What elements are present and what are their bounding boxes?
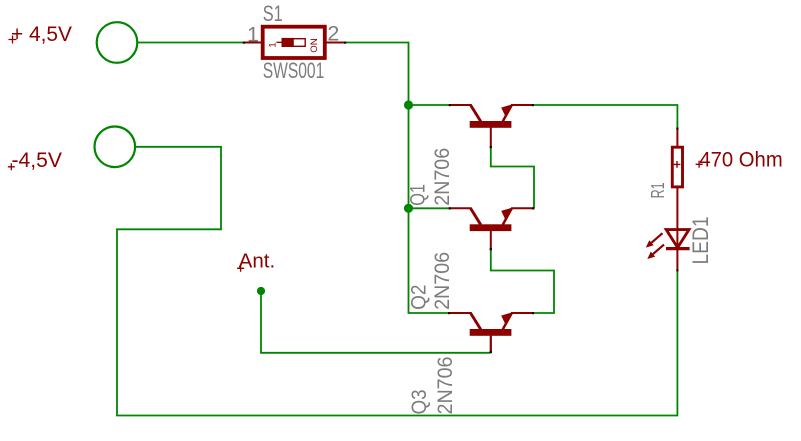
node Ant terminal dot <box>257 287 265 295</box>
LED1 light arrow 2 <box>647 245 664 259</box>
svg-text:SWS001: SWS001 <box>263 58 325 83</box>
resistor R1 body <box>672 147 682 187</box>
origin cross of +4,5V <box>9 36 17 44</box>
battery connector B2 (-4,5V) circle <box>95 127 136 168</box>
svg-text:Q1: Q1 <box>407 184 430 206</box>
wire Q1 base to Q2 emitter (elbow) <box>491 147 534 209</box>
resistor R1 top pin lead <box>676 128 678 147</box>
wire Q1 emitter to R1 (top right net) <box>533 105 678 129</box>
LED1 light arrow 1 <box>646 233 663 247</box>
svg-text:LED1: LED1 <box>688 217 713 265</box>
svg-text:R1: R1 <box>648 182 668 198</box>
svg-text:2N706: 2N706 <box>434 357 457 415</box>
svg-text:+ 4,5V: + 4,5V <box>11 22 73 46</box>
svg-text:2N706: 2N706 <box>431 252 454 310</box>
transistor Q1 (2N706) <box>449 104 533 147</box>
switch S1 slider outline <box>282 39 305 47</box>
wire rail to Q2 collector <box>409 207 450 209</box>
wire S1 pin2 to left collector rail <box>345 43 449 314</box>
wire rail to Q1 collector <box>409 104 450 106</box>
LED1 bottom pin lead <box>676 249 678 271</box>
switch S1 slider knob (filled) <box>282 38 294 47</box>
svg-text:ON: ON <box>309 38 320 53</box>
svg-text:1: 1 <box>247 23 259 47</box>
origin cross of Ant. <box>237 265 244 272</box>
svg-text:2: 2 <box>327 22 339 46</box>
switch S1 pin 1 lead <box>244 42 262 44</box>
pin connection dots (black) <box>243 42 679 354</box>
svg-text:Q3: Q3 <box>408 389 431 414</box>
switch S1 inner dash <box>277 41 282 43</box>
svg-text:Q2: Q2 <box>407 285 430 310</box>
LED1 diode triangle <box>666 230 689 248</box>
svg-text:1: 1 <box>268 42 279 47</box>
wire battery B2 loop to bottom rail and LED cathode <box>117 147 677 416</box>
transistor Q2 (2N706) <box>449 207 533 250</box>
svg-text:S1: S1 <box>263 1 283 26</box>
wire Ant to Q3 base <box>261 291 491 353</box>
svg-text:470 Ohm: 470 Ohm <box>699 147 782 171</box>
svg-text:-4,5V: -4,5V <box>12 148 63 172</box>
resistor R1 bottom pin lead (passes through LED triangle) <box>676 187 678 249</box>
LED1 cathode bar <box>666 247 690 250</box>
junction dot at rail / Q1 collector <box>404 100 413 109</box>
Q3 base lead from wire <box>490 336 492 353</box>
resistor R1 origin cross (inside body) <box>674 161 681 168</box>
wire battery B1 to S1 pin1 <box>137 42 244 44</box>
wire Q2 base to Q3 emitter (elbow) <box>491 249 554 313</box>
junction dot at rail / Q2 collector <box>404 204 413 213</box>
origin cross of -4,5V <box>8 163 15 170</box>
switch S1 body SWS001 <box>263 27 325 58</box>
origin cross of 470 Ohm <box>696 161 703 168</box>
battery connector B1 (+4,5V) circle <box>97 22 138 63</box>
transistor Q3 (2N706) <box>449 312 533 353</box>
svg-text:2N706: 2N706 <box>431 148 454 206</box>
svg-text:Ant.: Ant. <box>239 250 276 272</box>
switch S1 pin 2 lead <box>326 42 346 44</box>
